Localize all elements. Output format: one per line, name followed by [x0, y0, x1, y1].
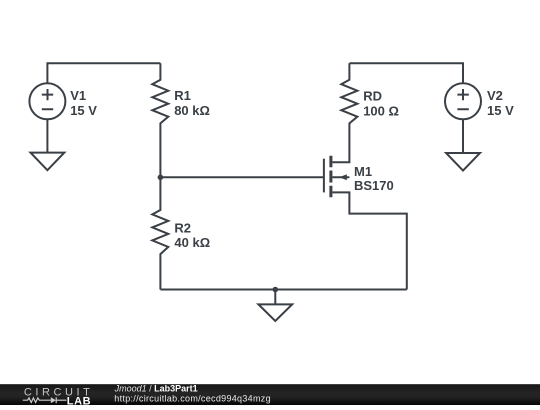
svg-text:LAB: LAB — [67, 396, 91, 405]
svg-text:R1: R1 — [174, 88, 191, 103]
svg-text:100 Ω: 100 Ω — [363, 103, 399, 118]
svg-text:RD: RD — [363, 88, 382, 103]
svg-text:Jmood1 / Lab3Part1: Jmood1 / Lab3Part1 — [114, 383, 198, 393]
svg-text:BS170: BS170 — [354, 178, 394, 193]
svg-text:V1: V1 — [70, 88, 86, 103]
svg-text:V2: V2 — [487, 88, 503, 103]
svg-text:R2: R2 — [174, 221, 191, 236]
svg-text:40 kΩ: 40 kΩ — [174, 235, 210, 250]
svg-text:15 V: 15 V — [70, 103, 97, 118]
svg-text:http://circuitlab.com/cecd994q: http://circuitlab.com/cecd994q34mzg — [114, 393, 271, 403]
svg-text:80 kΩ: 80 kΩ — [174, 103, 210, 118]
svg-text:15 V: 15 V — [487, 103, 514, 118]
svg-text:M1: M1 — [354, 164, 372, 179]
